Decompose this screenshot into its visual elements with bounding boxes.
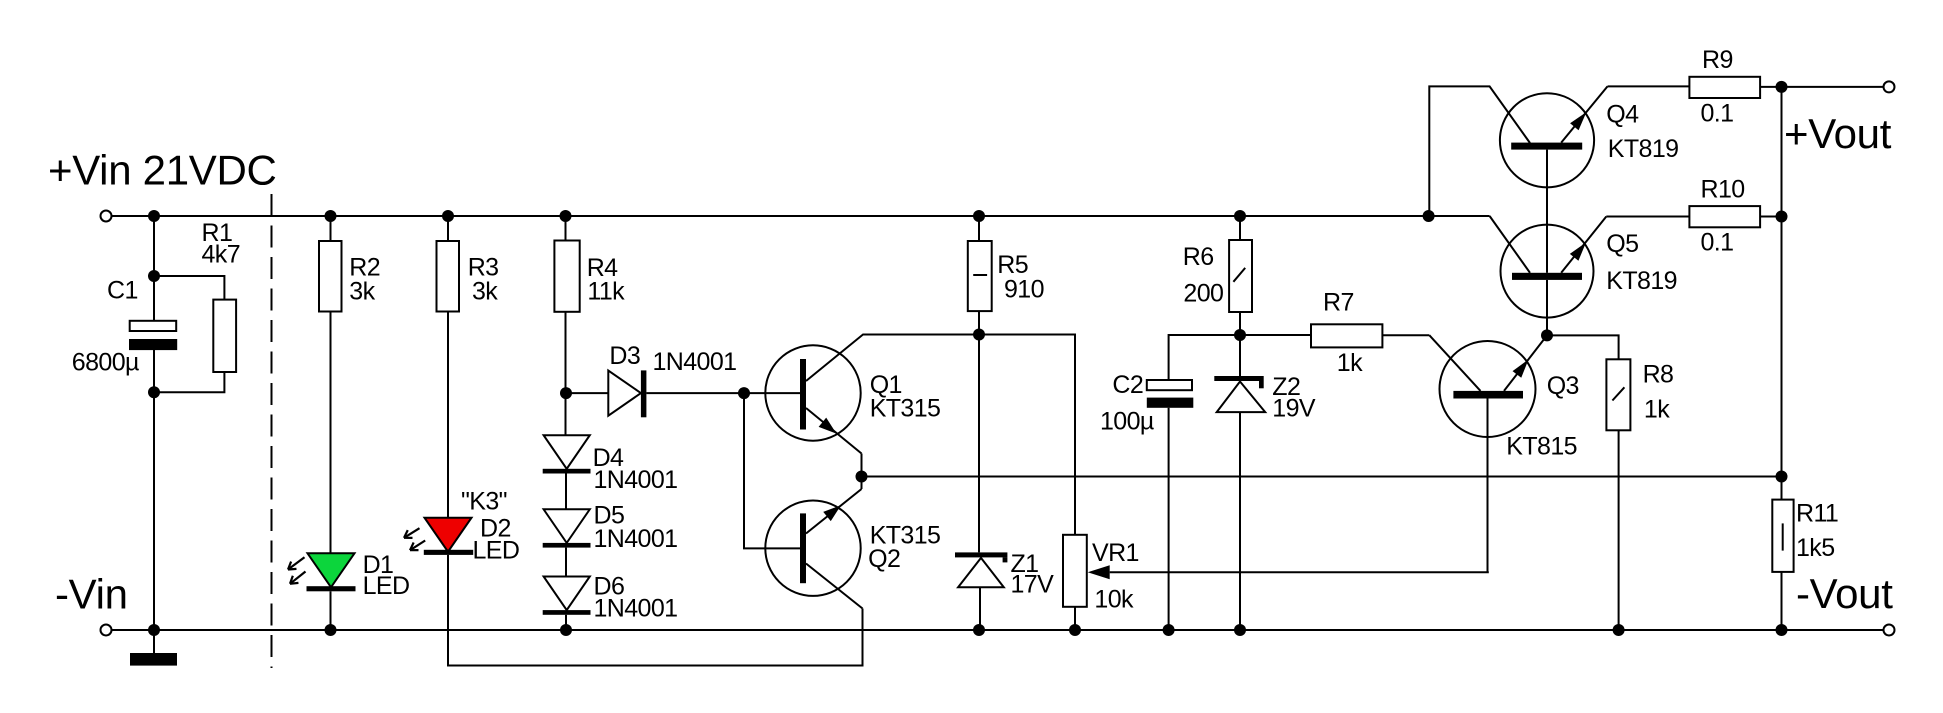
transistor Q3 xyxy=(1440,341,1536,437)
svg-text:1N4001: 1N4001 xyxy=(594,595,678,623)
output terminal -Vout xyxy=(1884,625,1895,636)
VR1 wiper xyxy=(1088,565,1110,579)
resistor R7 xyxy=(1311,324,1382,347)
wire R6 to node xyxy=(1239,312,1241,376)
potentiometer VR1 xyxy=(1063,535,1087,607)
svg-text:10k: 10k xyxy=(1094,586,1134,614)
wire R4 to D3 node xyxy=(565,312,567,436)
svg-text:0.1: 0.1 xyxy=(1701,100,1734,128)
resistor R8 xyxy=(1606,359,1630,430)
diode D3 xyxy=(608,371,641,416)
node Z2 bottom rail xyxy=(1234,624,1246,636)
svg-text:R10: R10 xyxy=(1701,175,1745,203)
node D6 bottom rail xyxy=(560,624,572,636)
node Z1 bottom rail xyxy=(973,624,985,636)
node R6 bottom xyxy=(1234,329,1246,341)
wire D6 to rail xyxy=(565,615,567,630)
wire R3 to D2 xyxy=(447,312,449,519)
wire D5 to D6 xyxy=(565,548,567,577)
svg-text:R6: R6 xyxy=(1183,243,1214,271)
svg-text:1k: 1k xyxy=(1644,396,1670,424)
node R2 top rail xyxy=(325,210,337,222)
wire Z1 to rail xyxy=(979,587,981,630)
resistor R6 xyxy=(1239,216,1241,240)
svg-text:3k: 3k xyxy=(472,278,498,306)
wire Q1 collector net xyxy=(863,335,1076,536)
transistor Q4 xyxy=(1500,93,1594,187)
svg-text:11k: 11k xyxy=(587,278,625,306)
wire Q5 emitter to R10 xyxy=(1606,216,1689,218)
wire +Vin top rail xyxy=(112,215,1490,217)
resistor R1 xyxy=(213,300,236,372)
node R6 top rail xyxy=(1234,210,1246,222)
node Q4 collector rail xyxy=(1423,210,1435,222)
wire driver node up to Q4 Q5 bases xyxy=(1546,280,1548,336)
svg-text:Q4: Q4 xyxy=(1606,100,1639,128)
wire Z2 to rail xyxy=(1239,412,1241,630)
wire D3 to Q bases node xyxy=(646,392,744,394)
resistor R4 xyxy=(565,216,567,241)
svg-text:1N4001: 1N4001 xyxy=(653,348,737,376)
svg-text:KT819: KT819 xyxy=(1606,267,1677,295)
svg-text:-Vin: -Vin xyxy=(55,570,128,617)
resistor R11 xyxy=(1772,500,1793,572)
wire Q4 emitter to R9 xyxy=(1608,85,1690,87)
wire R2 to D1 xyxy=(330,312,332,554)
node R3 top rail xyxy=(442,210,454,222)
svg-text:1k5: 1k5 xyxy=(1796,534,1835,562)
wire Q5 collector from rail xyxy=(1490,216,1530,273)
svg-text:Q2: Q2 xyxy=(868,545,900,573)
svg-text:"K3": "K3" xyxy=(461,488,507,516)
wire D2 feedback to Q2 collector xyxy=(448,555,863,666)
wire R5 to Z1 xyxy=(978,311,980,334)
wire D1 to rail xyxy=(330,591,332,630)
capacitor C1 xyxy=(130,321,177,331)
node A emitters xyxy=(856,471,868,483)
svg-text:0.1: 0.1 xyxy=(1701,228,1734,256)
wire -Vin bottom rail xyxy=(112,629,1884,631)
wire node to D3 xyxy=(566,392,609,394)
diode D6 xyxy=(544,577,590,611)
wire R7 to Q3 xyxy=(1382,334,1429,336)
transistor Q1 xyxy=(765,345,860,440)
svg-text:LED: LED xyxy=(363,572,410,600)
wire Q3 collector to VR1 wiper xyxy=(1487,399,1489,573)
svg-text:-Vout: -Vout xyxy=(1796,570,1893,617)
node C1 bottom rail xyxy=(148,624,160,636)
wire VR1 to rail xyxy=(1074,607,1076,630)
node VR1 bottom rail xyxy=(1069,624,1081,636)
node D1 bottom rail xyxy=(325,624,337,636)
wire C1 branch vertical xyxy=(153,216,155,322)
capacitor C2 xyxy=(1147,380,1192,390)
wire R1 loop bottom xyxy=(154,371,224,392)
svg-text:C2: C2 xyxy=(1112,371,1143,399)
svg-text:17V: 17V xyxy=(1011,571,1055,599)
wire R9 to +Vout xyxy=(1760,86,1883,88)
svg-text:3k: 3k xyxy=(349,278,375,306)
node D3 anode xyxy=(560,387,572,399)
svg-text:100µ: 100µ xyxy=(1100,408,1154,436)
svg-text:R9: R9 xyxy=(1702,46,1733,74)
resistor R5 xyxy=(978,216,980,241)
svg-text:+Vin 21VDC: +Vin 21VDC xyxy=(48,147,277,194)
svg-text:910: 910 xyxy=(1004,276,1044,304)
input terminal -Vin xyxy=(101,625,112,636)
D1 emission arrows xyxy=(288,557,305,569)
svg-text:R7: R7 xyxy=(1323,289,1354,317)
node R5 bottom xyxy=(973,329,985,341)
wire node A to output sense xyxy=(862,476,1782,478)
node C1-R1 top xyxy=(148,270,160,282)
LED D2 xyxy=(425,518,472,552)
svg-text:Q3: Q3 xyxy=(1547,372,1579,400)
node R8 bottom rail xyxy=(1613,624,1625,636)
wire C2 bottom xyxy=(1168,408,1170,630)
transistor Q5 xyxy=(1501,225,1594,318)
node C1-R1 bottom xyxy=(148,386,160,398)
node Q1 Q2 base xyxy=(738,387,750,399)
svg-text:1N4001: 1N4001 xyxy=(594,466,678,494)
node +Vout xyxy=(1776,81,1788,93)
node C2 bottom rail xyxy=(1163,624,1175,636)
svg-text:KT819: KT819 xyxy=(1608,135,1679,163)
diode D5 xyxy=(544,509,590,543)
resistor R3 xyxy=(447,216,449,241)
output terminal +Vout xyxy=(1884,81,1895,92)
wire R8 to rail xyxy=(1618,430,1620,630)
wire R6 node to R7 xyxy=(1240,334,1311,336)
svg-text:+Vout: +Vout xyxy=(1784,110,1892,157)
svg-text:LED: LED xyxy=(473,536,520,564)
svg-text:KT315: KT315 xyxy=(870,395,941,423)
input terminal +Vin xyxy=(101,211,112,222)
svg-text:D3: D3 xyxy=(609,342,640,370)
D2 emission arrows xyxy=(404,528,420,538)
svg-text:KT815: KT815 xyxy=(1506,432,1577,460)
wire R1 loop top xyxy=(154,276,224,301)
LED D1 xyxy=(308,553,355,587)
resistor R10 xyxy=(1689,206,1760,227)
wire C2 top xyxy=(1169,335,1240,381)
svg-text:4k7: 4k7 xyxy=(202,241,241,269)
node R10 output xyxy=(1776,211,1788,223)
diode D4 xyxy=(544,435,590,469)
resistor R9 xyxy=(1689,77,1760,98)
wire Q1 Q2 base link xyxy=(744,393,800,548)
zener Z2 xyxy=(1214,376,1263,381)
node output bottom rail xyxy=(1776,624,1788,636)
svg-text:R11: R11 xyxy=(1796,500,1838,528)
node C1 top rail xyxy=(148,210,160,222)
transistor Q2 xyxy=(765,501,860,596)
svg-text:R8: R8 xyxy=(1643,360,1674,388)
resistor R2 xyxy=(330,216,332,241)
ground xyxy=(130,653,177,666)
svg-text:1k: 1k xyxy=(1337,349,1363,377)
svg-text:200: 200 xyxy=(1183,279,1223,307)
node R4 top rail xyxy=(560,210,572,222)
svg-text:C1: C1 xyxy=(107,276,138,304)
svg-text:Q5: Q5 xyxy=(1606,230,1638,258)
wire Q4 collector to rail xyxy=(1429,86,1530,216)
node output sense xyxy=(1776,471,1788,483)
zener Z1 xyxy=(955,552,1007,557)
svg-text:1N4001: 1N4001 xyxy=(594,525,678,553)
wire D4 to D5 xyxy=(565,474,567,510)
wire output vertical xyxy=(1781,87,1783,630)
wire driver node to R8 xyxy=(1547,335,1619,359)
svg-text:6800µ: 6800µ xyxy=(72,348,139,376)
dashed separator line xyxy=(271,194,273,668)
node Q3 emitter / driver xyxy=(1541,329,1553,341)
svg-text:19V: 19V xyxy=(1272,395,1316,423)
node R5 top rail xyxy=(973,210,985,222)
wire R10 to output line xyxy=(1760,216,1781,218)
svg-text:VR1: VR1 xyxy=(1092,539,1139,567)
